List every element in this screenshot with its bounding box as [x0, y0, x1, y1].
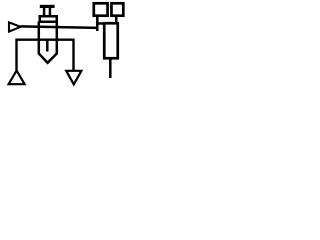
- actuator leg left: [43, 8, 46, 16]
- exhaust triangle E2 (down-pointing, bottom-center-right): [66, 71, 81, 85]
- check valve V1 (right-pointing open triangle): [9, 22, 21, 31]
- actuator leg right: [49, 8, 52, 16]
- nozzle inner tube: [46, 40, 49, 52]
- wire: leg from box B down to cylinder: [115, 17, 118, 24]
- amplifier valve box B (top-right right square): [111, 3, 123, 15]
- wire: cylinder rod stub (bottom): [109, 59, 112, 79]
- wire: lower branch line L2: [17, 40, 74, 70]
- exhaust triangle E1 (up-pointing, bottom-left): [9, 71, 25, 85]
- wire: leg from box A down to L1: [96, 17, 99, 32]
- cylinder C1 (tall rectangle, right): [104, 23, 118, 58]
- pilot valve body U1 (top-center box): [40, 16, 57, 22]
- amplifier valve box A (top-right left square): [94, 3, 108, 15]
- nozzle funnel N1 (open-bottom taper with side walls): [39, 22, 57, 63]
- wire: stub from leg to cylinder top: [97, 22, 105, 25]
- actuator cap bar (top of pilot valve): [40, 5, 55, 8]
- wire: main supply line L1: [21, 26, 98, 28]
